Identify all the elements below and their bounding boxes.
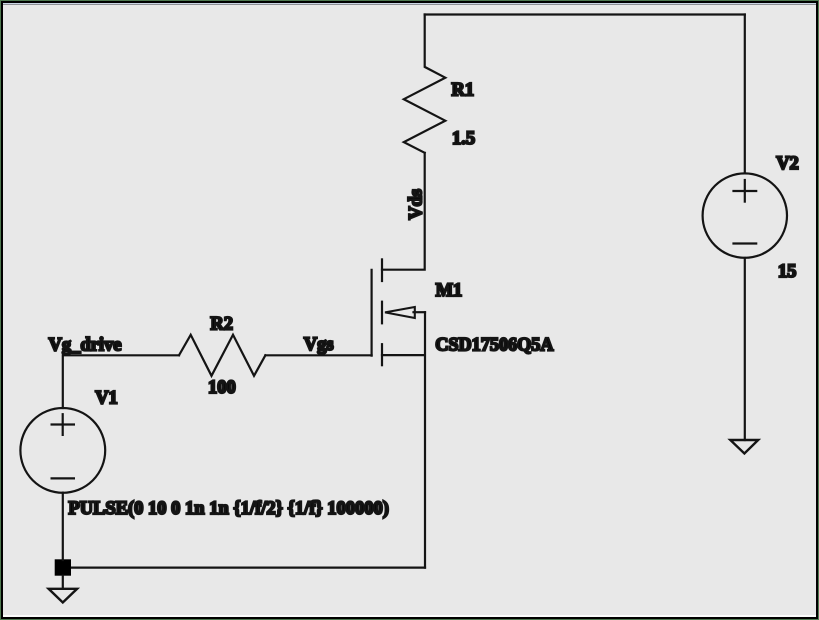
svg-text:PULSE(0 10 0 1n 1n {1/f/2} {1/: PULSE(0 10 0 1n 1n {1/f/2} {1/f} 100000)	[68, 499, 389, 519]
wire Vgs to gate	[265, 354, 371, 356]
svg-text:Vg_drive: Vg_drive	[49, 335, 122, 355]
svg-text:R1: R1	[452, 80, 475, 100]
ground (V2)	[730, 440, 758, 454]
wire V1 top to node Vg_drive	[63, 355, 179, 408]
svg-text:CSD17506Q5A: CSD17506Q5A	[435, 335, 554, 355]
svg-text:100: 100	[208, 378, 236, 398]
node junction	[55, 559, 71, 575]
svg-text:V1: V1	[95, 388, 118, 408]
wire V2 bottom	[744, 258, 746, 440]
svg-text:V2: V2	[776, 154, 799, 174]
wire V1 bottom to junction	[62, 493, 64, 560]
wire source down	[424, 312, 426, 567]
resistor R2	[179, 335, 265, 376]
voltage source V2	[703, 173, 787, 257]
wire bottom rail	[63, 566, 425, 568]
svg-text:1.5: 1.5	[452, 129, 475, 149]
svg-text:15: 15	[778, 262, 797, 282]
ground (V1)	[49, 589, 78, 603]
voltage source V1	[20, 408, 105, 493]
svg-text:R2: R2	[210, 315, 233, 335]
svg-text:M1: M1	[436, 281, 463, 301]
svg-text:Vds: Vds	[406, 189, 426, 220]
wire to ground	[62, 576, 64, 588]
resistor R1	[404, 15, 446, 153]
wire top rail	[425, 13, 745, 15]
transistor M1 (NMOS)	[372, 259, 425, 365]
wire V2 top	[744, 15, 746, 174]
wire drain (Vds net)	[382, 153, 425, 270]
svg-text:Vgs: Vgs	[304, 335, 334, 355]
